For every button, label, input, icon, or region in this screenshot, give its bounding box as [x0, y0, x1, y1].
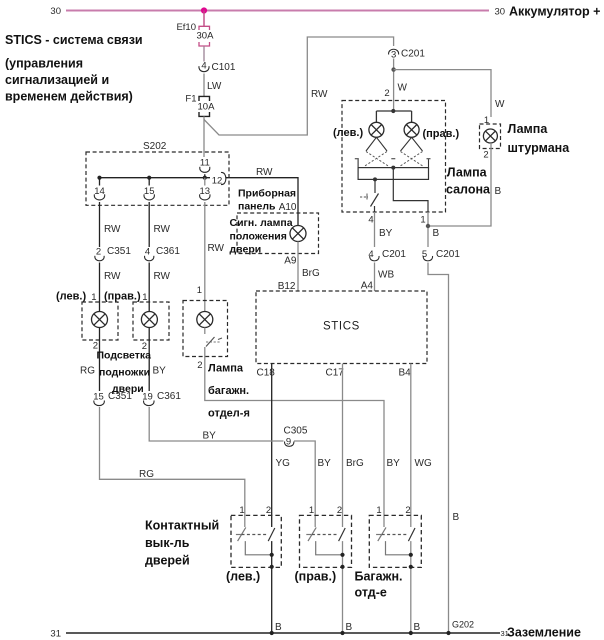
- svg-text:5: 5: [422, 249, 427, 260]
- svg-text:B: B: [433, 228, 440, 239]
- svg-text:C351: C351: [107, 246, 131, 257]
- svg-text:STICS: STICS: [323, 321, 360, 333]
- svg-text:RW: RW: [104, 224, 121, 235]
- svg-text:4: 4: [145, 247, 150, 258]
- svg-text:1: 1: [376, 505, 381, 516]
- svg-text:30: 30: [50, 6, 61, 17]
- svg-text:вык-ль: вык-ль: [145, 536, 190, 550]
- svg-text:(прав.): (прав.): [423, 128, 460, 140]
- svg-text:14: 14: [94, 186, 105, 197]
- svg-text:Лампа: Лампа: [208, 363, 244, 375]
- svg-text:BY: BY: [153, 366, 167, 377]
- svg-text:4: 4: [201, 61, 206, 72]
- svg-text:C18: C18: [257, 368, 276, 379]
- svg-text:(прав.): (прав.): [295, 570, 337, 584]
- svg-text:RW: RW: [256, 167, 273, 178]
- svg-text:S202: S202: [143, 141, 167, 152]
- svg-text:(прав.): (прав.): [104, 291, 141, 303]
- svg-text:4: 4: [368, 249, 373, 260]
- svg-text:Лампа: Лампа: [447, 166, 488, 180]
- svg-text:2: 2: [96, 247, 101, 258]
- svg-text:2: 2: [197, 360, 202, 371]
- svg-text:12: 12: [212, 176, 223, 187]
- svg-text:B: B: [346, 622, 353, 633]
- svg-text:2: 2: [405, 505, 410, 516]
- svg-text:B12: B12: [278, 281, 296, 292]
- svg-text:1: 1: [420, 215, 425, 226]
- svg-text:BrG: BrG: [346, 458, 364, 469]
- svg-text:(лев.): (лев.): [226, 570, 260, 584]
- svg-text:2: 2: [337, 505, 342, 516]
- svg-text:Аккумулятор +: Аккумулятор +: [509, 5, 600, 19]
- svg-text:A10: A10: [279, 202, 297, 213]
- svg-text:Лампа: Лампа: [508, 122, 549, 136]
- svg-text:RW: RW: [208, 243, 225, 254]
- svg-text:LW: LW: [207, 81, 222, 92]
- svg-text:(управления: (управления: [5, 57, 83, 71]
- svg-text:RW: RW: [104, 271, 121, 282]
- svg-text:2: 2: [384, 88, 389, 99]
- svg-text:1: 1: [309, 505, 314, 516]
- svg-text:RW: RW: [154, 224, 171, 235]
- svg-text:C305: C305: [284, 426, 308, 437]
- svg-text:C201: C201: [436, 249, 460, 260]
- svg-text:11: 11: [200, 158, 210, 169]
- svg-text:B4: B4: [399, 368, 412, 379]
- svg-text:Сигн. лампа: Сигн. лампа: [230, 217, 293, 229]
- svg-text:BrG: BrG: [302, 268, 320, 279]
- svg-text:RW: RW: [154, 271, 171, 282]
- svg-text:15: 15: [93, 392, 104, 403]
- svg-text:C361: C361: [157, 391, 181, 402]
- svg-text:B: B: [453, 512, 460, 523]
- svg-text:10A: 10A: [198, 102, 216, 113]
- svg-text:C201: C201: [382, 249, 406, 260]
- svg-text:2: 2: [266, 505, 271, 516]
- svg-text:BY: BY: [203, 431, 217, 442]
- svg-text:C201: C201: [401, 49, 425, 60]
- svg-text:C17: C17: [326, 368, 345, 379]
- svg-text:G202: G202: [452, 620, 474, 630]
- svg-text:9: 9: [286, 437, 291, 448]
- svg-text:(лев.): (лев.): [56, 291, 86, 303]
- svg-text:B: B: [495, 186, 502, 197]
- svg-text:Приборная: Приборная: [238, 188, 296, 200]
- svg-text:B: B: [414, 622, 421, 633]
- svg-text:30: 30: [495, 7, 506, 18]
- svg-text:B: B: [275, 622, 282, 633]
- svg-text:RW: RW: [311, 89, 328, 100]
- svg-text:1: 1: [197, 285, 202, 296]
- svg-text:1: 1: [91, 292, 96, 303]
- svg-text:1: 1: [142, 292, 147, 303]
- svg-text:1: 1: [239, 505, 244, 516]
- svg-text:отд-е: отд-е: [355, 586, 387, 600]
- svg-text:15: 15: [144, 186, 155, 197]
- svg-text:отдел-я: отдел-я: [208, 408, 250, 420]
- svg-text:Подсветка: Подсветка: [97, 350, 152, 362]
- svg-text:F1: F1: [185, 94, 196, 105]
- svg-text:Контактный: Контактный: [145, 519, 219, 533]
- svg-text:двери: двери: [230, 244, 262, 256]
- svg-text:салона: салона: [446, 183, 491, 197]
- svg-text:A9: A9: [284, 256, 297, 267]
- svg-text:W: W: [495, 99, 505, 110]
- svg-text:панель: панель: [238, 201, 276, 213]
- svg-text:подножки: подножки: [99, 367, 150, 379]
- svg-text:2: 2: [483, 150, 488, 161]
- svg-text:Ef10: Ef10: [176, 22, 196, 33]
- svg-text:багажн.: багажн.: [208, 385, 249, 397]
- svg-text:4: 4: [368, 215, 373, 226]
- svg-text:RG: RG: [139, 469, 154, 480]
- svg-text:BY: BY: [387, 458, 401, 469]
- svg-text:YG: YG: [276, 458, 291, 469]
- svg-text:сигнализацией и: сигнализацией и: [5, 73, 109, 87]
- svg-text:C361: C361: [156, 246, 180, 257]
- svg-text:штурмана: штурмана: [508, 141, 571, 155]
- svg-text:13: 13: [200, 186, 211, 197]
- svg-text:Багажн.: Багажн.: [355, 570, 403, 584]
- svg-text:C101: C101: [212, 62, 236, 73]
- svg-text:30A: 30A: [197, 31, 215, 42]
- svg-text:временем действия): временем действия): [5, 90, 133, 104]
- svg-text:BY: BY: [318, 458, 332, 469]
- svg-text:A4: A4: [361, 281, 374, 292]
- svg-text:RG: RG: [80, 366, 95, 377]
- svg-text:WG: WG: [415, 458, 432, 469]
- svg-text:положения: положения: [230, 231, 287, 243]
- svg-text:WB: WB: [378, 270, 394, 281]
- svg-text:31: 31: [50, 629, 61, 640]
- svg-text:W: W: [398, 83, 408, 94]
- svg-text:19: 19: [142, 392, 153, 403]
- svg-text:C351: C351: [108, 391, 132, 402]
- svg-text:дверей: дверей: [145, 554, 190, 568]
- svg-text:(лев.): (лев.): [333, 127, 363, 139]
- svg-text:BY: BY: [379, 228, 393, 239]
- svg-text:Заземление: Заземление: [507, 626, 581, 640]
- svg-text:STICS - система связи: STICS - система связи: [5, 33, 143, 47]
